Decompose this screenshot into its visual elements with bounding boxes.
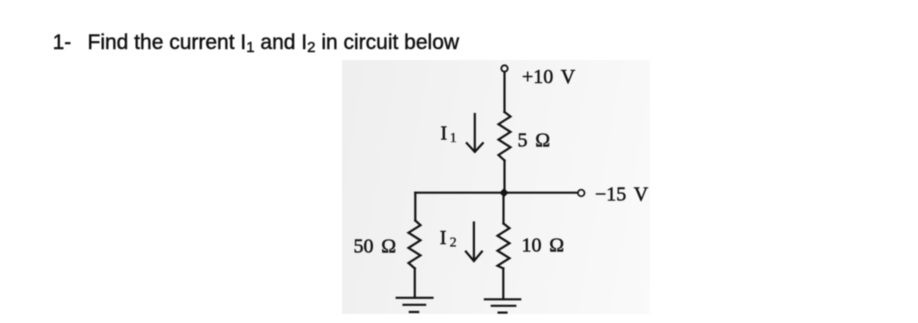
svg-text:I: I: [441, 122, 448, 144]
heading text: [0, 0, 918, 1]
terminal -15V: [578, 190, 585, 197]
ground right: [485, 299, 520, 312]
wire 10 ohm to ground: [502, 268, 504, 299]
resistor 50 ohm: [409, 221, 421, 269]
svg-text:5 Ω: 5 Ω: [518, 130, 551, 152]
wire resistor to node: [503, 161, 505, 193]
current arrow I2: [466, 223, 482, 262]
ground left: [397, 298, 433, 312]
wire horizontal right: [504, 192, 578, 194]
svg-text:−15 V: −15 V: [595, 184, 649, 206]
node junction: [499, 188, 508, 197]
svg-text:10 Ω: 10 Ω: [522, 235, 565, 257]
terminal +10V: [501, 65, 507, 71]
current arrow I1: [467, 114, 483, 152]
resistor 10 ohm: [498, 224, 510, 269]
svg-text:1: 1: [450, 131, 457, 146]
wire horizontal left: [415, 192, 504, 194]
svg-text:+10 V: +10 V: [522, 66, 576, 88]
svg-text:2: 2: [450, 235, 457, 250]
svg-text:I: I: [440, 227, 447, 249]
wire left vertical: [414, 193, 416, 221]
wire node to 10 ohm: [502, 193, 504, 224]
wire 50 ohm to ground: [414, 268, 416, 297]
resistor 5 ohm: [499, 112, 511, 161]
svg-text:50 Ω: 50 Ω: [354, 236, 397, 258]
wire top vertical: [503, 72, 505, 112]
